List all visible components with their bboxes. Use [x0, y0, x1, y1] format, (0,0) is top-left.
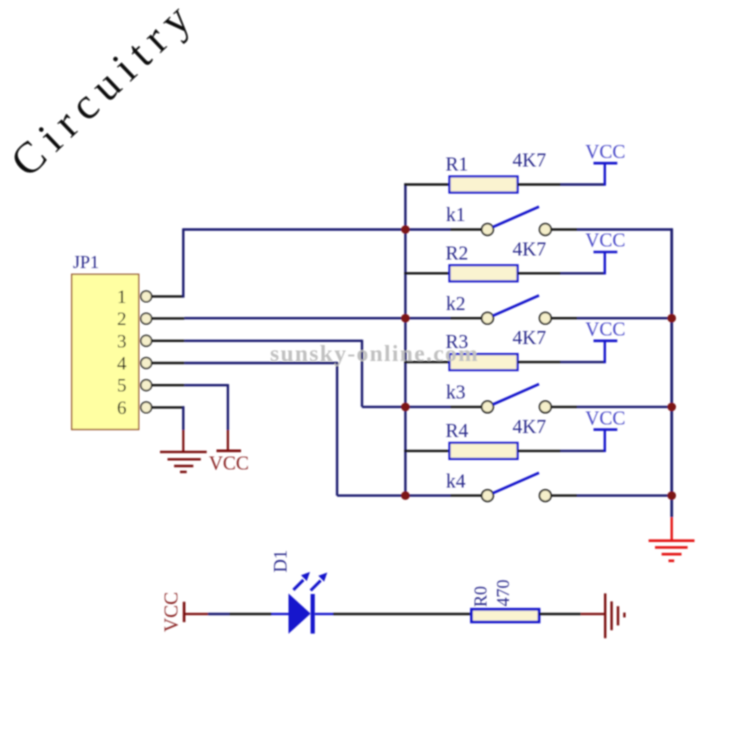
- switch k2 blade: [493, 295, 539, 315]
- wire right bus vertical x=672: [670, 228, 673, 517]
- svg-text:2: 2: [117, 309, 127, 330]
- resistor R4 body: [450, 443, 518, 459]
- junction k1 left: [401, 225, 410, 234]
- svg-text:470: 470: [493, 580, 513, 607]
- power VCC stub (R4): [604, 430, 606, 452]
- wire k2 left black pin: [451, 317, 482, 319]
- wire R1 right black: [518, 183, 561, 185]
- wire k1 right navy: [577, 228, 673, 230]
- resistor R1 body: [450, 177, 518, 193]
- junction k4 right bus: [667, 491, 676, 500]
- wire pin5 horizontal: [184, 384, 228, 386]
- wire pin3 vertical: [361, 340, 363, 407]
- svg-text:VCC: VCC: [585, 320, 625, 341]
- switch k2 right contact: [540, 312, 552, 324]
- LED D1 arrow 2 head: [318, 573, 327, 582]
- svg-text:VCC: VCC: [585, 408, 625, 429]
- svg-text:VCC: VCC: [162, 592, 183, 632]
- switch k4 left contact: [482, 490, 494, 502]
- resistor R3 body: [450, 354, 518, 370]
- svg-text:6: 6: [117, 398, 127, 419]
- wire R2 right navy: [561, 272, 605, 274]
- svg-text:k4: k4: [446, 471, 466, 492]
- svg-text:4K7: 4K7: [513, 239, 547, 260]
- svg-text:JP1: JP1: [73, 252, 99, 272]
- wire blue LED cathode pin: [315, 613, 333, 615]
- wire R4 right navy: [561, 450, 605, 452]
- svg-text:R0: R0: [471, 586, 491, 607]
- switch k4 right contact: [540, 490, 552, 502]
- wire pin5 vertical dark red: [227, 430, 229, 451]
- svg-text:R4: R4: [446, 421, 469, 442]
- LED D1 cathode bar: [311, 594, 315, 634]
- junction k2 right bus: [667, 314, 676, 323]
- pin 3 circle: [141, 335, 152, 346]
- wire pin2 to junction: [184, 317, 405, 319]
- connector JP1 body: [72, 274, 139, 429]
- power VCC symbol below pin5 (bar): [217, 449, 242, 452]
- wire pin4 to k4 junction: [337, 494, 405, 496]
- wire dark red to ground: [581, 613, 605, 615]
- ground symbol below pin6: [160, 452, 207, 472]
- wire VCC stub dark red: [184, 613, 208, 615]
- svg-text:sunsky-online.com: sunsky-online.com: [270, 341, 479, 367]
- wire pin6 vertical navy: [182, 406, 184, 430]
- junction k4 left: [401, 491, 410, 500]
- wire pin3 horizontal: [184, 340, 362, 342]
- wire k2 right black pin: [551, 317, 577, 319]
- pin 2 circle: [141, 313, 152, 324]
- svg-text:R2: R2: [446, 243, 469, 264]
- power VCC bar (R4): [594, 428, 618, 431]
- pin 5 circle: [141, 380, 152, 391]
- switch k3 right contact: [540, 401, 552, 413]
- svg-text:1: 1: [117, 287, 127, 308]
- wire R3 right black: [518, 361, 561, 363]
- switch k4 blade: [493, 473, 539, 493]
- svg-text:D1: D1: [272, 550, 292, 573]
- junction k3 right bus: [667, 403, 676, 412]
- svg-text:k3: k3: [446, 383, 466, 404]
- svg-text:4: 4: [117, 354, 127, 375]
- switch k1 left contact: [482, 224, 494, 236]
- wire R2 left: [404, 272, 450, 274]
- power VCC bar (bottom): [183, 602, 186, 622]
- pin 4 circle: [141, 358, 152, 369]
- wire k1 left navy: [183, 228, 450, 230]
- resistor R0 body: [472, 609, 540, 622]
- switch k1 blade: [493, 207, 539, 227]
- junction k2 left: [401, 314, 410, 323]
- wire k1 right black pin: [551, 228, 577, 230]
- wire R3 right navy: [561, 361, 605, 363]
- svg-text:3: 3: [117, 331, 127, 352]
- wire pin1 vertical up: [182, 228, 184, 297]
- svg-text:VCC: VCC: [585, 142, 625, 163]
- switch k1 right contact: [540, 224, 552, 236]
- svg-text:k1: k1: [446, 205, 466, 226]
- LED D1 arrow 2 shaft: [311, 581, 321, 591]
- wire bus to ground (red): [671, 517, 673, 539]
- wire pin3 stub: [152, 340, 184, 342]
- wire black to R0: [333, 613, 472, 615]
- svg-text:Circuitry: Circuitry: [1, 0, 205, 186]
- svg-text:R1: R1: [446, 155, 469, 176]
- wire black: [230, 613, 272, 615]
- wire k4 left navy: [405, 494, 450, 496]
- pin 6 circle: [141, 402, 152, 413]
- wire k2 left navy: [405, 317, 450, 319]
- wire k4 left black pin: [451, 494, 482, 496]
- LED D1 triangle: [289, 594, 311, 634]
- svg-text:4K7: 4K7: [513, 151, 547, 172]
- wire R1 left: [404, 183, 450, 185]
- svg-text:k2: k2: [446, 294, 466, 315]
- wire R4 right black: [518, 450, 561, 452]
- wire pin1 stub: [152, 295, 184, 297]
- wire pin4 horizontal: [184, 362, 337, 364]
- power VCC stub (R2): [604, 252, 606, 274]
- wire k1 left black pin: [451, 228, 482, 230]
- resistor R2 body: [450, 265, 518, 281]
- wire k3 left black pin: [451, 406, 482, 408]
- LED D1 arrow 1 shaft: [293, 580, 303, 590]
- wire pin6 stub: [152, 406, 184, 408]
- wire pin2 stub: [152, 317, 184, 319]
- LED D1 arrow 1 head: [301, 572, 310, 581]
- power VCC stub (R3): [604, 341, 606, 363]
- power VCC bar (R3): [594, 339, 618, 342]
- switch k3 blade: [493, 384, 539, 404]
- wire k3 right navy: [577, 406, 672, 408]
- ground symbol at bus bottom (red): [649, 541, 695, 561]
- power VCC bar (R2): [594, 251, 618, 254]
- switch k3 left contact: [482, 401, 494, 413]
- wire pin4 stub: [152, 362, 184, 364]
- wire pin3 to k3 junction: [362, 406, 405, 408]
- wire pin6 vertical dark red: [182, 430, 184, 452]
- power VCC bar (R1): [594, 162, 618, 165]
- wire navy: [208, 613, 230, 615]
- junction k3 left: [401, 403, 410, 412]
- wire R3 left: [404, 361, 450, 363]
- wire k4 right black pin: [551, 494, 577, 496]
- ground symbol sideways (bottom right): [605, 593, 624, 638]
- wire k3 right black pin: [551, 406, 577, 408]
- wire R1 right navy: [561, 183, 605, 185]
- pin 1 circle: [141, 291, 152, 302]
- wire R4 left: [404, 450, 450, 452]
- wire left bus vertical x=405: [404, 183, 406, 495]
- wire pin5 stub: [152, 384, 184, 386]
- svg-text:5: 5: [117, 376, 127, 397]
- wire R2 right black: [518, 272, 561, 274]
- wire k2 right navy: [577, 317, 672, 319]
- power VCC stub (R1): [604, 163, 606, 185]
- switch k2 left contact: [482, 312, 494, 324]
- svg-text:VCC: VCC: [209, 454, 249, 475]
- wire R0 right black: [539, 613, 581, 615]
- svg-text:4K7: 4K7: [513, 328, 547, 349]
- wire k4 right navy: [577, 494, 672, 496]
- wire k3 left navy: [405, 406, 450, 408]
- wire blue LED anode pin: [272, 613, 289, 615]
- svg-text:4K7: 4K7: [513, 417, 547, 438]
- wire pin5 vertical navy: [227, 384, 229, 430]
- svg-text:VCC: VCC: [585, 231, 625, 252]
- wire pin4 vertical: [336, 362, 338, 496]
